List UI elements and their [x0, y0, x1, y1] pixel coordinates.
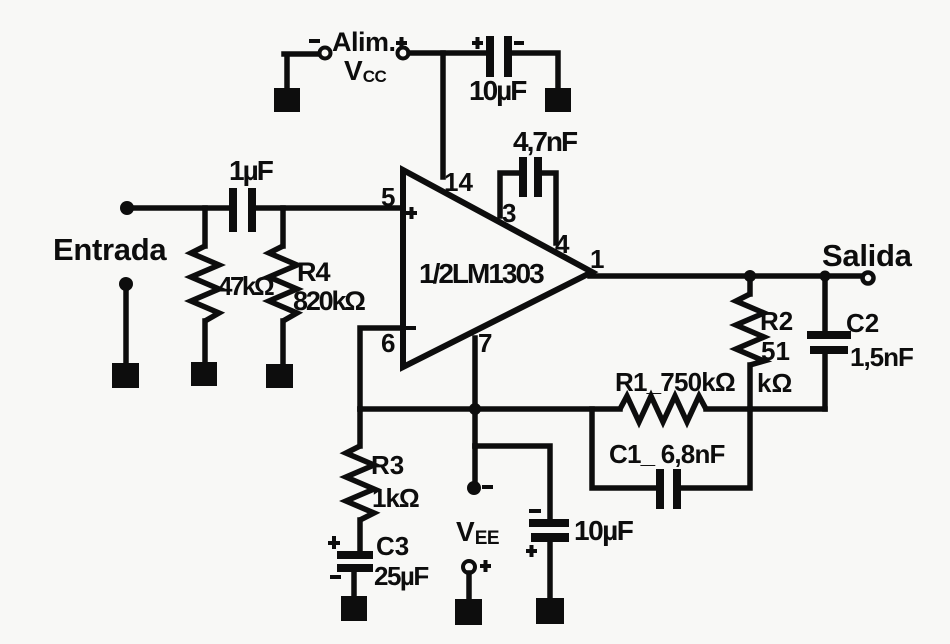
svg-text:1,5nF: 1,5nF — [850, 342, 913, 372]
svg-text:R1_750kΩ: R1_750kΩ — [615, 367, 735, 397]
resistor R1 750k — [620, 396, 706, 422]
ground G2 (10uF top) — [545, 88, 571, 112]
svg-text:Alim.: Alim. — [332, 27, 396, 57]
ground G1 (Vcc minus) — [274, 88, 300, 112]
node Salida terminal circle — [863, 273, 874, 284]
svg-text:1/2LM1303: 1/2LM1303 — [419, 258, 544, 289]
node Alim plus terminal circle — [398, 48, 409, 59]
svg-text:820kΩ: 820kΩ — [293, 286, 365, 316]
capacitor 10uF top plates — [486, 36, 494, 77]
ground G7 (10uF bottom) — [536, 598, 564, 624]
svg-text:C2: C2 — [846, 308, 879, 338]
wire 4.7nF loop pin3 to pin4 — [500, 173, 556, 243]
svg-text:1kΩ: 1kΩ — [372, 483, 419, 513]
svg-text:14: 14 — [444, 167, 473, 197]
polarity plus at Alim right — [396, 37, 407, 49]
svg-text:10µF: 10µF — [574, 515, 634, 546]
polarity plus 10uF top — [472, 37, 483, 49]
op-amp U1 1/2 LM1303 triangle — [403, 170, 592, 367]
svg-text:47kΩ: 47kΩ — [218, 271, 274, 301]
node entrada stub dot — [119, 277, 133, 291]
wire input horizontal — [127, 205, 403, 211]
capacitor C3 25uF plates — [337, 551, 373, 559]
wire output — [590, 273, 862, 279]
polarity plus 10uF bottom — [526, 545, 537, 557]
node C2 output junction — [820, 271, 831, 282]
svg-text:R4: R4 — [297, 257, 330, 287]
wire C1 loop — [592, 409, 750, 488]
wire pin 7 down — [472, 338, 478, 446]
wire pin 7 branch to VEE dot — [472, 446, 478, 483]
capacitor C1 6.8nF plates — [656, 469, 664, 509]
wire feedback horizontal left — [360, 406, 620, 412]
svg-text:VEE: VEE — [456, 516, 499, 549]
svg-text:R2: R2 — [760, 306, 793, 336]
svg-text:4,7nF: 4,7nF — [513, 126, 578, 157]
wire 47k top lead — [202, 208, 208, 246]
capacitor 1uF plates — [229, 188, 237, 232]
polarity minus at Alim — [309, 39, 320, 43]
svg-text:7: 7 — [478, 328, 492, 358]
capacitor 10uF bottom plates — [529, 519, 569, 527]
svg-text:51: 51 — [761, 336, 790, 366]
svg-text:3: 3 — [502, 198, 516, 228]
svg-text:6: 6 — [381, 328, 395, 358]
svg-text:25µF: 25µF — [374, 561, 428, 591]
svg-text:C1_ 6,8nF: C1_ 6,8nF — [609, 439, 725, 469]
wire entrada stub — [123, 284, 129, 365]
svg-text:C3: C3 — [376, 531, 409, 561]
svg-text:VCC: VCC — [344, 55, 386, 86]
wire R2 bottom lead — [747, 365, 753, 409]
wire VEE terminal to ground — [466, 573, 472, 601]
wire pin 6 to feedback — [360, 328, 403, 409]
svg-text:4: 4 — [555, 229, 570, 259]
polarity minus 10uF top — [514, 41, 524, 45]
ground G4 (R4) — [266, 364, 293, 388]
wire bottom 10uF to ground — [547, 542, 553, 599]
svg-text:R3: R3 — [371, 450, 404, 480]
polarity plus at VEE terminal — [480, 560, 491, 572]
wire R4 top lead — [280, 208, 286, 246]
ground G8 (C3) — [341, 596, 367, 621]
wire R3 top lead — [357, 409, 363, 446]
svg-text:1µF: 1µF — [229, 155, 274, 186]
wire C2 bottom lead — [822, 354, 828, 409]
wire C2 top lead — [822, 276, 828, 331]
svg-text:kΩ: kΩ — [757, 368, 792, 398]
svg-text:Entrada: Entrada — [53, 232, 167, 267]
node input terminal dot — [120, 201, 134, 215]
resistor 47k — [191, 246, 219, 321]
node VEE plus terminal circle — [463, 561, 475, 573]
resistor R4 820k — [269, 246, 297, 321]
wire R3 bottom lead — [357, 520, 363, 552]
wire 10uF top to ground — [511, 53, 558, 90]
node pin7 feedback junction — [469, 403, 481, 415]
polarity minus at pin7 dot — [482, 485, 493, 489]
wire C3 to ground — [351, 571, 357, 598]
svg-text:10µF: 10µF — [469, 75, 527, 106]
ground G3 (47k) — [191, 362, 217, 386]
node VEE minus dot — [467, 481, 481, 495]
node R2 output junction — [744, 270, 756, 282]
wire branch to bottom 10uF — [475, 446, 550, 519]
wire Vcc minus terminal to ground — [284, 54, 318, 90]
capacitor C2 1.5nF plates — [807, 331, 851, 339]
wire Vcc plus rail — [409, 50, 487, 56]
polarity minus C3 — [330, 575, 341, 579]
wire feedback horizontal right — [706, 406, 825, 412]
capacitor 4.7nF plates — [519, 157, 527, 197]
ground G5 (entrada stub) — [112, 363, 139, 388]
polarity minus 10uF bottom — [529, 509, 541, 513]
wire R4 bottom lead — [280, 321, 286, 366]
polarity plus C3 — [328, 536, 340, 549]
svg-text:5: 5 — [381, 182, 395, 212]
op-amp minus input mark — [405, 326, 416, 330]
wire 47k bottom lead — [202, 321, 208, 364]
svg-text:Salida: Salida — [822, 238, 913, 273]
op-amp plus input mark — [406, 207, 417, 219]
wire pin 14 riser — [440, 53, 446, 177]
node Alim minus terminal circle — [320, 48, 331, 59]
svg-text:1: 1 — [590, 244, 604, 274]
ground G6 (VEE) — [455, 599, 482, 625]
resistor R3 1k — [346, 446, 374, 520]
resistor R2 51k — [736, 294, 764, 365]
wire R2 top lead — [747, 276, 753, 294]
